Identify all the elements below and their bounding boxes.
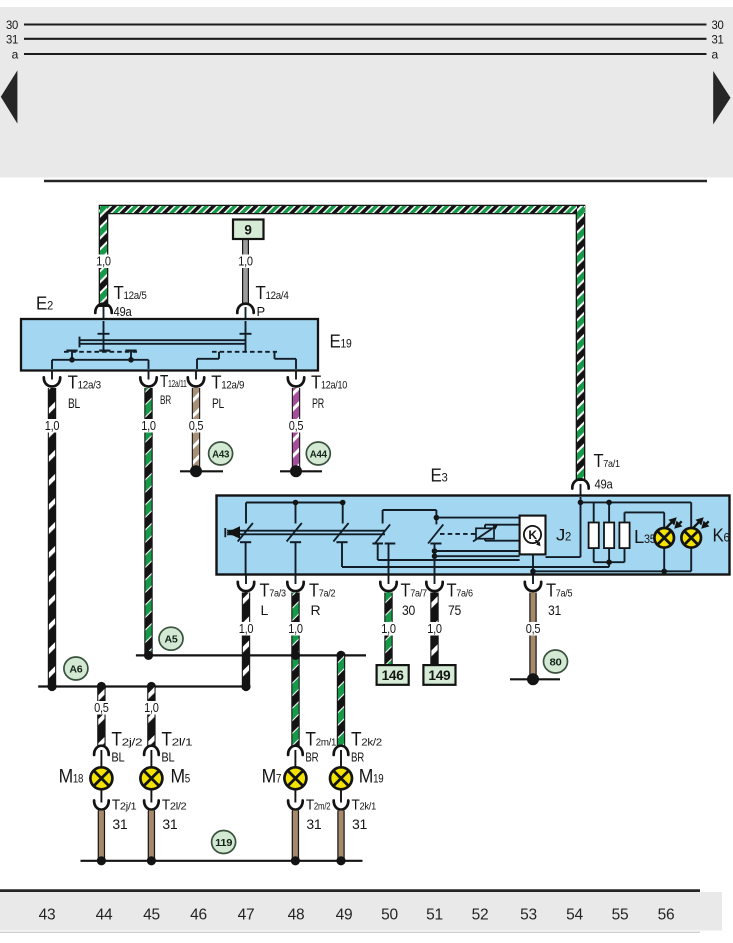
svg-text:T2j/1: T2j/1 [112,798,137,814]
svg-text:PR: PR [312,395,324,411]
svg-text:44: 44 [96,907,113,924]
svg-text:31: 31 [112,816,128,832]
svg-text:50: 50 [381,907,398,924]
svg-text:31: 31 [352,816,368,832]
svg-text:T12a/3: T12a/3 [68,371,102,392]
svg-text:56: 56 [658,907,675,924]
svg-text:R: R [311,602,321,618]
svg-text:46: 46 [190,907,207,924]
svg-text:T12a/5: T12a/5 [114,282,147,303]
svg-text:119: 119 [215,837,232,849]
svg-text:1,0: 1,0 [288,622,303,636]
svg-text:T7a/2: T7a/2 [309,581,336,601]
svg-text:T12a/11: T12a/11 [160,371,187,391]
svg-text:T2l/2: T2l/2 [162,798,187,814]
svg-text:T7a/7: T7a/7 [401,581,428,601]
svg-text:BL: BL [161,751,174,765]
svg-text:BL: BL [111,751,124,765]
svg-text:49: 49 [336,907,353,924]
svg-text:T2k/2: T2k/2 [351,730,382,751]
svg-text:A5: A5 [165,634,178,646]
svg-text:A6: A6 [69,663,82,675]
svg-text:0,5: 0,5 [289,419,304,433]
svg-text:BR: BR [351,751,364,765]
svg-text:T7a/6: T7a/6 [447,581,474,601]
svg-text:P: P [257,304,265,319]
svg-text:L: L [261,602,269,618]
svg-text:30: 30 [712,18,725,32]
svg-text:146: 146 [382,668,405,683]
svg-text:T7a/1: T7a/1 [594,451,621,471]
svg-text:0,5: 0,5 [526,622,541,636]
svg-text:E2: E2 [36,294,54,314]
svg-text:M19: M19 [359,767,384,788]
svg-text:M5: M5 [171,767,191,788]
svg-text:T7a/3: T7a/3 [260,581,287,601]
svg-text:1,0: 1,0 [427,622,442,636]
svg-text:31: 31 [548,602,561,618]
svg-text:T2m/2: T2m/2 [306,798,331,814]
svg-text:80: 80 [550,656,562,668]
svg-text:49a: 49a [114,304,133,319]
svg-text:47: 47 [238,907,255,924]
svg-text:51: 51 [426,907,443,924]
svg-text:E3: E3 [431,466,449,486]
svg-text:PL: PL [212,395,224,411]
svg-text:T2k/1: T2k/1 [352,798,377,814]
svg-text:1,0: 1,0 [96,255,111,269]
svg-text:T2m/1: T2m/1 [305,730,336,751]
svg-text:1,0: 1,0 [238,255,253,269]
svg-text:30: 30 [6,18,19,32]
svg-text:75: 75 [448,602,461,618]
svg-text:A43: A43 [212,448,229,460]
svg-text:54: 54 [566,907,583,924]
svg-text:BR: BR [160,393,171,407]
svg-text:T2j/2: T2j/2 [111,730,142,751]
svg-text:M18: M18 [59,767,84,788]
svg-text:BL: BL [68,395,80,411]
svg-text:31: 31 [712,32,725,46]
svg-text:31: 31 [306,816,322,832]
svg-text:T12a/9: T12a/9 [211,371,244,392]
svg-text:a: a [12,48,19,62]
svg-text:T12a/4: T12a/4 [256,282,289,303]
svg-text:53: 53 [520,907,537,924]
svg-text:a: a [712,48,719,62]
svg-text:149: 149 [428,668,450,683]
svg-text:A44: A44 [310,448,327,460]
svg-text:43: 43 [39,907,56,924]
svg-text:55: 55 [612,907,629,924]
svg-text:1,0: 1,0 [381,622,396,636]
svg-text:49a: 49a [595,477,614,492]
svg-text:1,0: 1,0 [239,622,254,636]
svg-text:BR: BR [305,751,318,765]
svg-text:45: 45 [143,907,160,924]
svg-text:48: 48 [288,907,305,924]
svg-text:31: 31 [162,816,178,832]
svg-text:1,0: 1,0 [45,419,60,433]
svg-text:52: 52 [472,907,489,924]
svg-text:1,0: 1,0 [144,701,159,715]
svg-text:T7a/5: T7a/5 [546,581,573,601]
svg-text:0,5: 0,5 [189,419,204,433]
svg-text:0,5: 0,5 [94,701,109,715]
svg-text:T2l/1: T2l/1 [161,730,192,751]
svg-text:E19: E19 [330,332,353,352]
svg-text:9: 9 [244,223,251,238]
svg-text:M7: M7 [262,767,282,788]
svg-text:31: 31 [6,32,19,46]
svg-text:1,0: 1,0 [141,419,156,433]
svg-text:30: 30 [402,602,415,618]
svg-text:T12a/10: T12a/10 [311,371,347,392]
